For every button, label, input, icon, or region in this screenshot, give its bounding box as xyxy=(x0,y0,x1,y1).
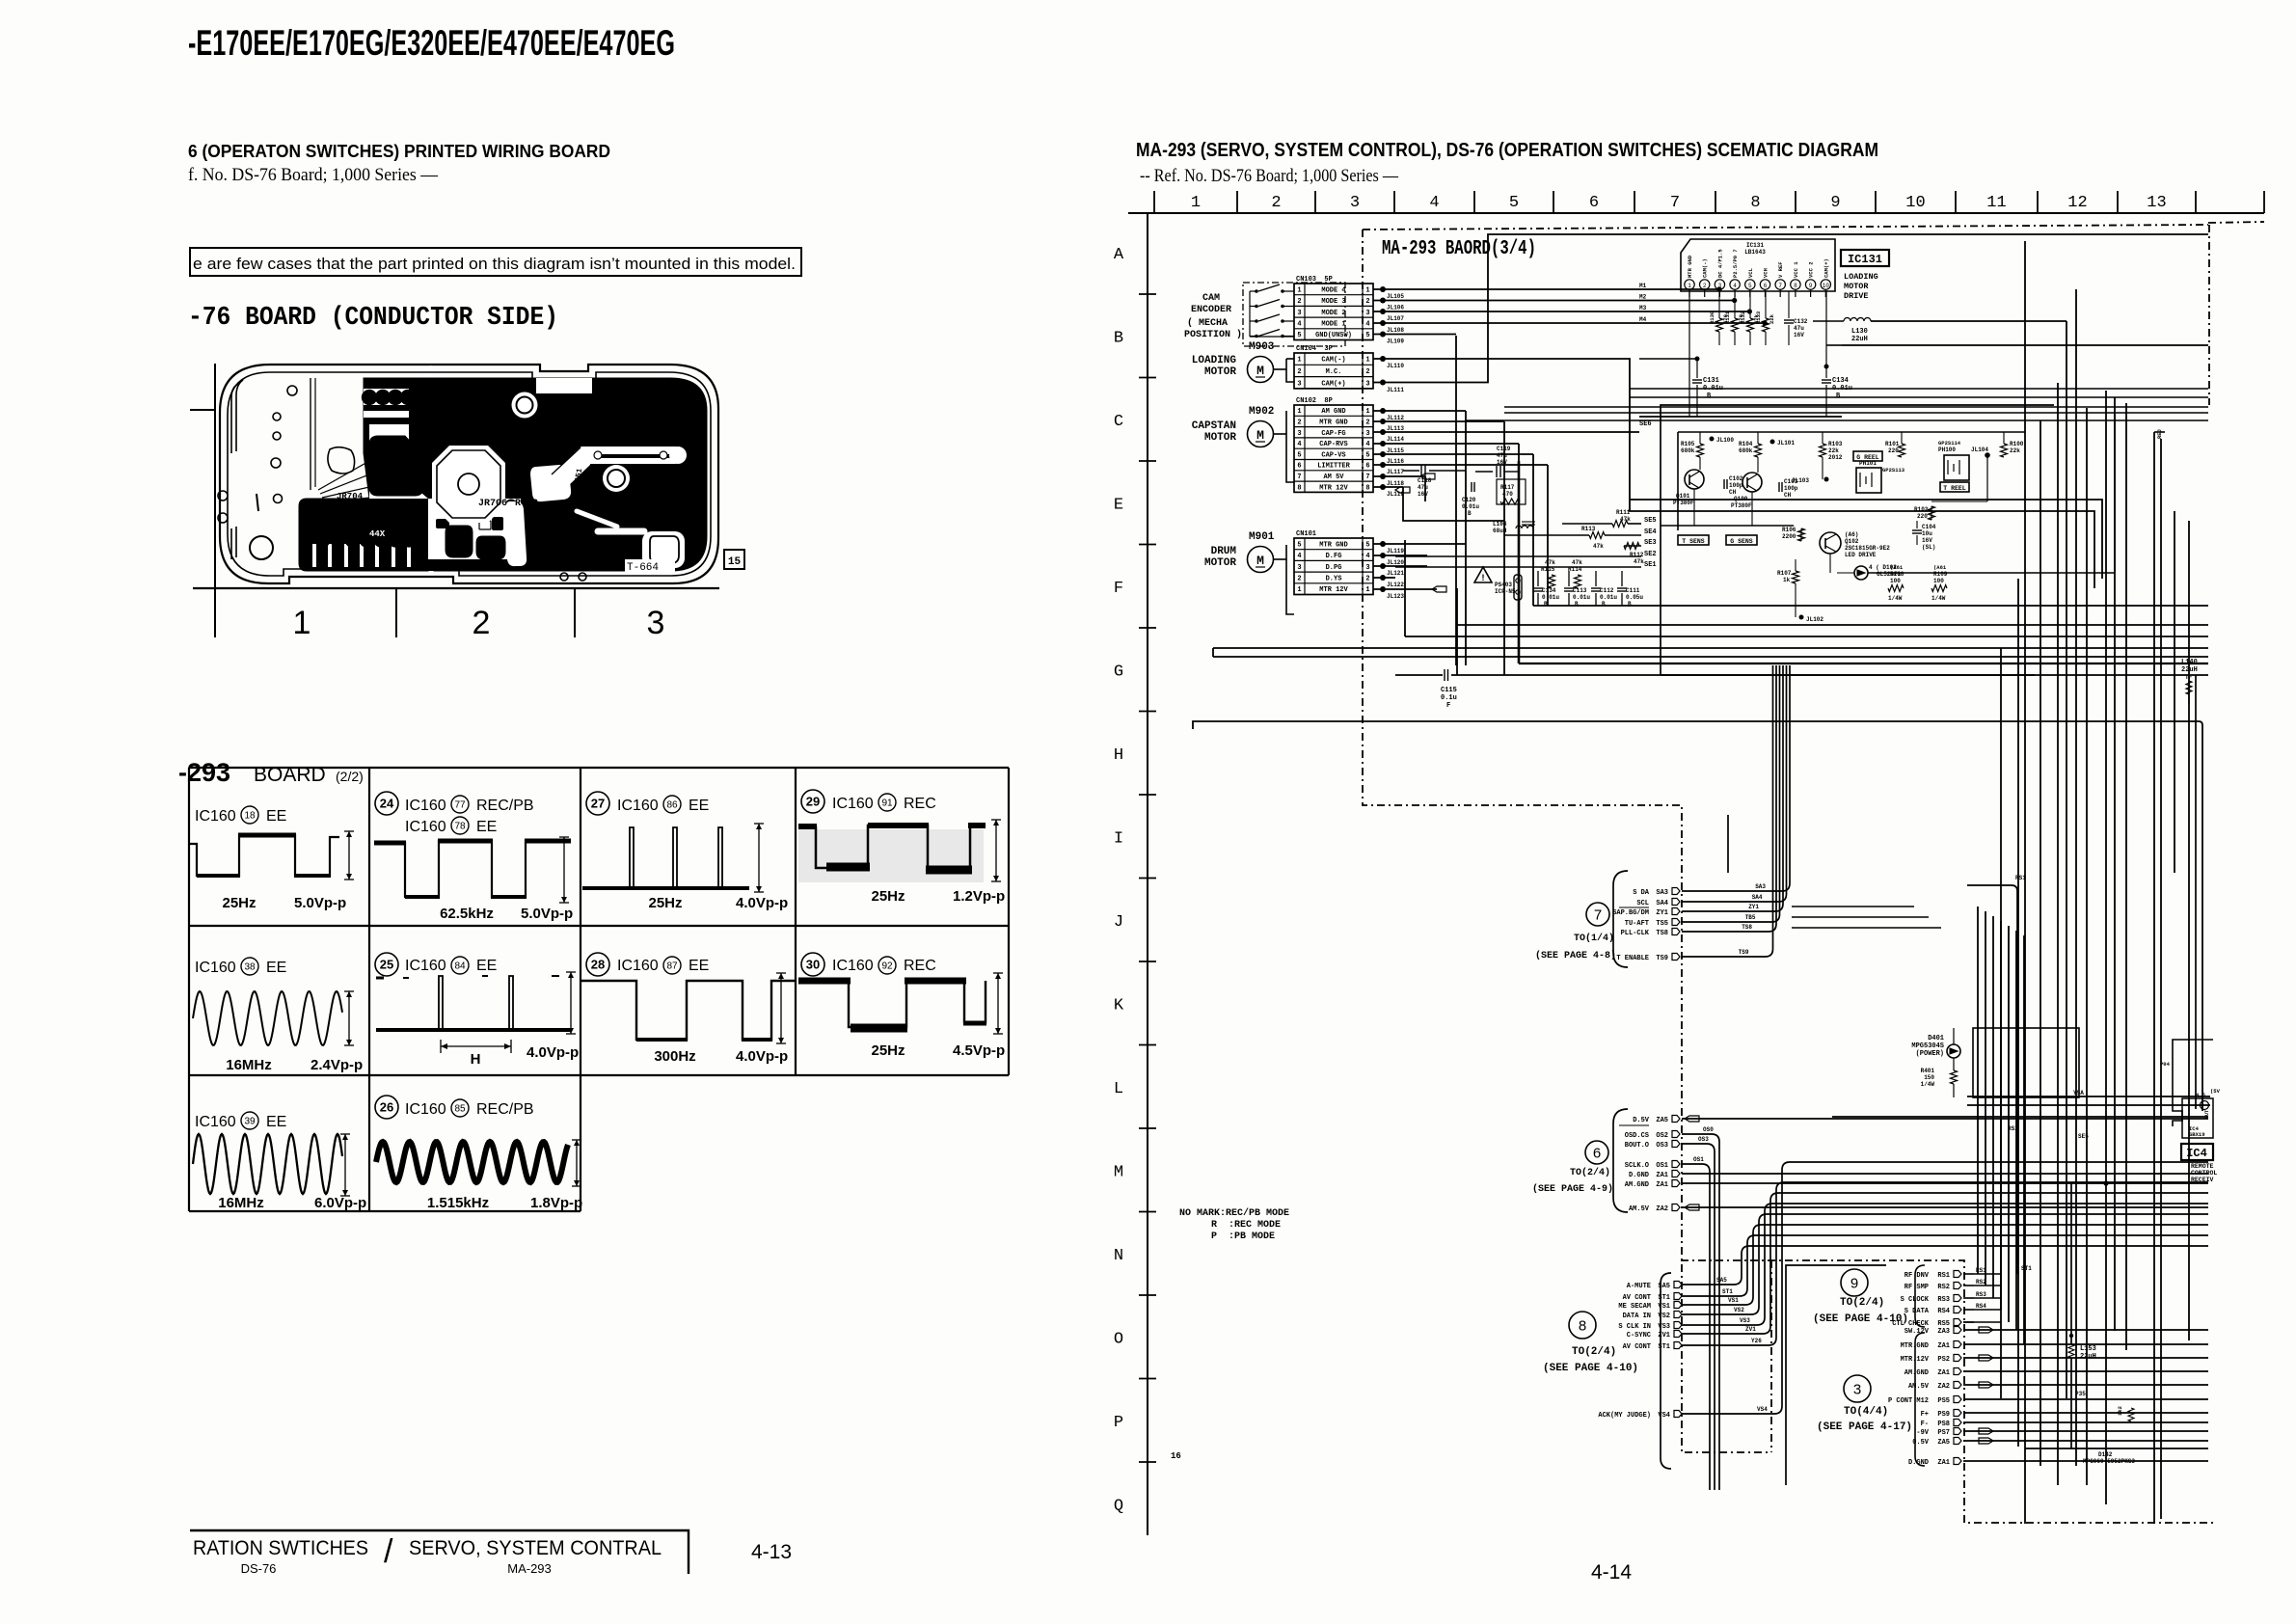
svg-text:TF: TF xyxy=(2185,674,2193,681)
svg-text:68uH: 68uH xyxy=(1493,528,1507,534)
svg-text:2: 2 xyxy=(1297,368,1301,376)
resistor vertical near L153 xyxy=(2128,1408,2134,1421)
svg-text:11: 11 xyxy=(1986,194,2006,212)
svg-text:VS3: VS3 xyxy=(1658,1323,1670,1331)
svg-text:16V: 16V xyxy=(1922,537,1932,544)
svg-text:SCL: SCL xyxy=(1636,900,1649,907)
svg-text:CAPSTAN: CAPSTAN xyxy=(1192,420,1236,432)
svg-text:IC160: IC160 xyxy=(405,798,446,814)
svg-text:ZA1: ZA1 xyxy=(1656,1172,1668,1179)
wire xyxy=(1373,288,1719,290)
PCB white dip top notch xyxy=(536,378,592,393)
svg-text:D.YS: D.YS xyxy=(1326,575,1342,582)
top ruler xyxy=(1128,212,2264,214)
svg-text:R112: R112 xyxy=(1630,552,1644,558)
board boundary dash-dot xyxy=(1363,225,2208,230)
svg-text:EE: EE xyxy=(266,808,286,825)
svg-text:C113: C113 xyxy=(1573,587,1587,594)
resistor R102 xyxy=(1929,506,1935,520)
wire thick vertical 1575 xyxy=(1518,461,1521,663)
svg-text:D.GND: D.GND xyxy=(1629,1172,1649,1179)
wire xyxy=(1373,588,1437,590)
svg-text:ST1: ST1 xyxy=(1658,1343,1670,1351)
sensor block outline xyxy=(1661,405,2054,675)
svg-text:P :PB MODE: P :PB MODE xyxy=(1211,1232,1275,1242)
svg-text:TO(2/4): TO(2/4) xyxy=(1572,1346,1616,1358)
svg-text:0.1u: 0.1u xyxy=(1441,694,1457,702)
IC131 label box xyxy=(1841,250,1889,266)
PCB white band center xyxy=(428,499,521,564)
svg-text:M903: M903 xyxy=(1249,341,1275,353)
svg-text:R113: R113 xyxy=(1581,526,1596,532)
wires LED drive xyxy=(1795,559,1796,571)
inductor L130 xyxy=(1813,320,1844,322)
svg-text:LOADING: LOADING xyxy=(1844,272,1878,282)
svg-text:AM 5V: AM 5V xyxy=(1323,474,1344,481)
svg-text:JL119: JL119 xyxy=(1387,548,1404,555)
svg-text:DRIVE: DRIVE xyxy=(1844,291,1869,301)
svg-text:MPG060-5952PKG3: MPG060-5952PKG3 xyxy=(2083,1458,2135,1465)
svg-text:62.5kHz: 62.5kHz xyxy=(440,906,494,922)
PCB copper main mass xyxy=(409,378,707,571)
svg-text:TS5: TS5 xyxy=(1656,920,1668,928)
svg-text:2200: 2200 xyxy=(1782,533,1796,540)
svg-text:92: 92 xyxy=(881,961,893,972)
svg-text:e are few cases that the part: e are few cases that the part printed on… xyxy=(193,255,796,273)
svg-text:47k: 47k xyxy=(1545,559,1555,566)
svg-text:Q: Q xyxy=(1114,1498,1123,1516)
transistor Q100 xyxy=(1742,473,1762,492)
svg-text:L104: L104 xyxy=(1493,521,1507,528)
svg-text:44X: 44X xyxy=(369,529,386,539)
svg-text:PS9: PS9 xyxy=(1937,1411,1950,1419)
svg-text:-76 BOARD (CONDUCTOR SIDE): -76 BOARD (CONDUCTOR SIDE) xyxy=(188,304,558,333)
svg-text:ST1: ST1 xyxy=(2021,1265,2032,1272)
wire vertical bus xyxy=(2000,648,2002,1398)
svg-text:OS3: OS3 xyxy=(1656,1142,1668,1150)
svg-text:0.5V: 0.5V xyxy=(1912,1439,1930,1447)
inductor L153 xyxy=(2069,1334,2073,1338)
svg-text:(2/2): (2/2) xyxy=(336,769,364,784)
label T SENS xyxy=(1678,535,1709,545)
svg-text:ZA5: ZA5 xyxy=(1937,1439,1950,1447)
svg-text:150: 150 xyxy=(1924,1074,1934,1081)
wire long y748 xyxy=(1193,721,2202,1111)
sheet number box 15 xyxy=(724,550,744,569)
svg-text:0.01u: 0.01u xyxy=(1600,594,1617,601)
svg-text:R401: R401 xyxy=(1921,1068,1935,1074)
svg-text:JL114: JL114 xyxy=(1387,436,1404,443)
svg-text:5: 5 xyxy=(1297,541,1301,549)
svg-text:R131: R131 xyxy=(1724,311,1731,324)
svg-text:PS2: PS2 xyxy=(1937,1356,1950,1364)
svg-text:R107: R107 xyxy=(1777,570,1792,577)
svg-text:P CONT M12: P CONT M12 xyxy=(1888,1397,1929,1405)
svg-text:4: 4 xyxy=(1365,553,1369,560)
svg-text:6.0Vp-p: 6.0Vp-p xyxy=(314,1195,366,1211)
svg-text:1k2: 1k2 xyxy=(2117,1406,2123,1416)
svg-text:C111: C111 xyxy=(1626,587,1640,594)
PCB slot traces left xyxy=(231,384,238,453)
svg-text:4: 4 xyxy=(1365,441,1369,448)
svg-text:4.5: 4.5 xyxy=(2196,1092,2206,1098)
svg-text:JL101: JL101 xyxy=(1777,440,1795,447)
svg-text:TO(2/4): TO(2/4) xyxy=(1840,1297,1884,1309)
svg-text:PH100: PH100 xyxy=(1938,447,1956,453)
svg-text:1: 1 xyxy=(293,605,311,641)
svg-text:(5V: (5V xyxy=(2210,1088,2221,1095)
label G REEL xyxy=(1853,451,1882,461)
svg-text:3: 3 xyxy=(1350,194,1360,212)
resistor R112 xyxy=(1624,543,1639,550)
svg-text:IC131: IC131 xyxy=(1746,242,1764,249)
PCB rounded hole bottom right xyxy=(642,531,685,568)
capacitor C103 xyxy=(1778,482,1780,492)
svg-text:POSITION ): POSITION ) xyxy=(1184,329,1242,340)
svg-text:TU-AFT: TU-AFT xyxy=(1625,920,1649,928)
svg-text:OS1: OS1 xyxy=(1656,1162,1668,1170)
svg-text:EE: EE xyxy=(476,819,497,835)
svg-text:D.FG: D.FG xyxy=(1326,553,1342,560)
svg-text:6: 6 xyxy=(1297,463,1301,471)
CAM encoder switch box xyxy=(1243,283,1345,346)
svg-text:1: 1 xyxy=(1297,286,1301,294)
wire bus upper xyxy=(1630,388,2208,390)
svg-text:470: 470 xyxy=(1502,491,1513,498)
wire xyxy=(1373,311,1749,312)
svg-text:DATA IN: DATA IN xyxy=(1623,1313,1651,1320)
svg-text:GP2S113: GP2S113 xyxy=(1882,467,1905,474)
wire CAM+ xyxy=(1373,234,2208,383)
svg-text:DRUM: DRUM xyxy=(1211,546,1237,557)
svg-text:R115: R115 xyxy=(1541,566,1555,573)
svg-text:22uH: 22uH xyxy=(1851,336,1868,343)
svg-text:L153: L153 xyxy=(2080,1345,2096,1353)
svg-text:DC 4/P1.5: DC 4/P1.5 xyxy=(1716,249,1723,278)
svg-text:4: 4 xyxy=(1297,320,1301,328)
wire CAM- xyxy=(1373,359,2094,588)
svg-text:PLL-CLK: PLL-CLK xyxy=(1621,930,1650,937)
svg-text:5: 5 xyxy=(1365,451,1369,459)
svg-text:LB1643: LB1643 xyxy=(1744,249,1766,256)
svg-text:6: 6 xyxy=(1593,1145,1601,1161)
svg-text:5: 5 xyxy=(1748,283,1752,289)
capacitor C120 xyxy=(1471,482,1472,492)
svg-text:MOTOR: MOTOR xyxy=(1844,282,1869,291)
svg-text:2: 2 xyxy=(1297,575,1301,582)
svg-text:(A6): (A6) xyxy=(1845,531,1858,538)
svg-text:47u: 47u xyxy=(1418,484,1428,491)
svg-text:ZA1: ZA1 xyxy=(1937,1342,1950,1350)
wire group7 feeders xyxy=(1727,815,1729,873)
svg-text:16V: 16V xyxy=(1794,332,1804,338)
wire cap rail xyxy=(1533,605,2208,607)
svg-text:(SEE PAGE 4-8): (SEE PAGE 4-8) xyxy=(1535,950,1616,961)
svg-text:2: 2 xyxy=(1297,298,1301,306)
svg-text:L: L xyxy=(1114,1080,1123,1098)
svg-text:IC160: IC160 xyxy=(832,796,874,812)
wires sensor block xyxy=(1678,431,2025,433)
svg-text:MTR GND: MTR GND xyxy=(1319,541,1347,549)
wire horizontals into groups xyxy=(1792,906,1914,907)
opto PH100 xyxy=(1944,455,1969,480)
svg-text:15: 15 xyxy=(728,556,742,568)
capacitor C134b xyxy=(1825,366,1827,378)
svg-text:SE5: SE5 xyxy=(2078,1133,2089,1140)
svg-text:PT380F: PT380F xyxy=(1673,500,1694,506)
svg-text:R452: R452 xyxy=(515,499,538,509)
svg-text:Y5A: Y5A xyxy=(2073,1090,2084,1096)
label G SENS xyxy=(1726,535,1757,545)
svg-text:D.GND: D.GND xyxy=(1908,1459,1929,1467)
resistor R109 xyxy=(1931,585,1947,592)
svg-text:JL112: JL112 xyxy=(1387,415,1404,421)
svg-text:SE4: SE4 xyxy=(1644,528,1657,536)
svg-text:PS7: PS7 xyxy=(1937,1429,1950,1437)
svg-text:MOTOR: MOTOR xyxy=(1204,432,1236,444)
svg-text:REC: REC xyxy=(904,796,936,812)
svg-text:0.01u: 0.01u xyxy=(1542,594,1559,601)
svg-text:JL122: JL122 xyxy=(1387,582,1404,588)
wire xyxy=(1373,410,1466,412)
svg-text:MTR GND: MTR GND xyxy=(1687,255,1693,278)
svg-text:VCC 2: VCC 2 xyxy=(1808,261,1815,278)
svg-text:G SENS: G SENS xyxy=(1730,538,1753,545)
svg-text:ME SECAM: ME SECAM xyxy=(1618,1303,1651,1311)
svg-text:28: 28 xyxy=(591,958,605,972)
wire sensor bottoms xyxy=(1986,455,1988,501)
svg-text:10: 10 xyxy=(1905,194,1925,212)
svg-text:CTL CHECK: CTL CHECK xyxy=(1892,1320,1930,1328)
svg-text:JL107: JL107 xyxy=(1387,315,1404,322)
svg-text:2: 2 xyxy=(1297,419,1301,426)
svg-text:47k: 47k xyxy=(1620,516,1631,523)
svg-text:NO MARK:REC/PB MODE: NO MARK:REC/PB MODE xyxy=(1179,1207,1289,1219)
svg-text:JL100: JL100 xyxy=(1716,437,1734,444)
capacitor C132 xyxy=(1788,291,1790,318)
svg-text:RS3: RS3 xyxy=(1976,1291,1986,1298)
svg-text:(SEE PAGE 4-9): (SEE PAGE 4-9) xyxy=(1532,1183,1613,1195)
wire diagonal bus loop xyxy=(1455,336,1457,665)
svg-text:IC4: IC4 xyxy=(2186,1147,2207,1160)
svg-text:RS2: RS2 xyxy=(1937,1284,1950,1291)
svg-text:MTR.GND: MTR.GND xyxy=(1901,1342,1929,1350)
svg-text:ST1: ST1 xyxy=(1722,1288,1733,1295)
svg-text:4.0Vp-p: 4.0Vp-p xyxy=(527,1044,579,1061)
svg-text:5.0Vp-p: 5.0Vp-p xyxy=(294,895,346,911)
svg-text:V REF: V REF xyxy=(1777,261,1784,278)
resistor R115 xyxy=(1549,575,1555,588)
IC131 chip xyxy=(1681,239,1835,291)
svg-text:IC131: IC131 xyxy=(1848,253,1882,266)
svg-text:3: 3 xyxy=(1853,1381,1861,1397)
connector group 7 xyxy=(1613,871,1628,967)
svg-text:MTR.12V: MTR.12V xyxy=(1901,1356,1930,1364)
svg-text:C102: C102 xyxy=(1729,475,1743,482)
svg-text:OUT: OUT xyxy=(2204,1110,2210,1119)
svg-text:R101: R101 xyxy=(1885,441,1900,447)
svg-text:M: M xyxy=(1256,428,1264,443)
PCB white channel vertical xyxy=(504,501,527,566)
resistors R130 R131 R132 R133 xyxy=(1718,291,1720,318)
svg-text:39: 39 xyxy=(244,1117,256,1127)
svg-text:ZA1: ZA1 xyxy=(1656,1181,1668,1189)
svg-text:2: 2 xyxy=(1271,194,1281,212)
svg-text:M4: M4 xyxy=(1639,316,1647,323)
PCB board outline xyxy=(220,365,718,583)
svg-text:6: 6 xyxy=(1589,194,1599,212)
svg-text:VCC 1: VCC 1 xyxy=(1793,261,1799,278)
svg-text:F-: F- xyxy=(1921,1421,1929,1428)
PCB pad row top-left xyxy=(363,391,377,405)
svg-text:CN104 3P: CN104 3P xyxy=(1296,345,1333,353)
svg-text:RS1: RS1 xyxy=(2015,875,2026,881)
svg-text:CONTROL: CONTROL xyxy=(2191,1170,2217,1177)
svg-text:D.5V: D.5V xyxy=(1633,1117,1650,1124)
svg-text:B: B xyxy=(1602,601,1606,608)
PCB axis line xyxy=(214,364,216,637)
wire xyxy=(1373,475,1425,477)
svg-text:B: B xyxy=(1628,601,1632,608)
svg-text:TS9: TS9 xyxy=(1739,949,1749,956)
note box xyxy=(190,248,801,276)
svg-text:CN101: CN101 xyxy=(1296,530,1316,538)
wire xyxy=(1373,420,1504,422)
capacitor C102 xyxy=(1723,479,1725,489)
svg-text:C112: C112 xyxy=(1600,587,1614,594)
svg-text:VS1: VS1 xyxy=(1728,1297,1739,1304)
svg-text:BOUT.O: BOUT.O xyxy=(1625,1142,1649,1150)
svg-text:3: 3 xyxy=(428,365,433,374)
svg-text:ICP-N5: ICP-N5 xyxy=(1495,588,1516,595)
svg-text:9: 9 xyxy=(1850,1275,1858,1291)
svg-text:S DA: S DA xyxy=(1633,889,1650,897)
svg-text:MOTOR: MOTOR xyxy=(1204,557,1236,569)
svg-text:ZA5: ZA5 xyxy=(1656,1117,1668,1124)
svg-text:R133: R133 xyxy=(1755,311,1762,324)
svg-text:TS8: TS8 xyxy=(1742,924,1752,931)
svg-text:IC160: IC160 xyxy=(195,808,236,825)
svg-text:Q100: Q100 xyxy=(1734,496,1748,502)
svg-text:L140: L140 xyxy=(2181,659,2198,666)
svg-text:7: 7 xyxy=(1365,474,1369,481)
svg-text:E: E xyxy=(1114,497,1123,515)
svg-text:AV CONT: AV CONT xyxy=(1623,1343,1651,1351)
waveform cell 30 IC160 92 REC xyxy=(801,953,824,976)
svg-text:22uH: 22uH xyxy=(2181,666,2198,674)
IC4 remote receiver xyxy=(2173,1040,2213,1126)
svg-text:VS4: VS4 xyxy=(1757,1406,1768,1413)
svg-text:220: 220 xyxy=(1917,513,1928,520)
svg-text:EE: EE xyxy=(689,958,709,974)
wire xyxy=(1373,486,1403,488)
svg-text:7: 7 xyxy=(1594,907,1602,923)
svg-text:22k: 22k xyxy=(1828,447,1839,454)
svg-text:SE3: SE3 xyxy=(1644,539,1657,547)
wire IC131 bottom rail xyxy=(1639,416,1842,418)
svg-text:30: 30 xyxy=(806,958,820,972)
PCB ring hole top xyxy=(512,392,538,419)
svg-text:VS3: VS3 xyxy=(1740,1317,1750,1324)
svg-text:CAM(+): CAM(+) xyxy=(1823,258,1829,278)
wire long horizontals mid xyxy=(1213,647,2208,649)
svg-text:(SEE PAGE 4-17): (SEE PAGE 4-17) xyxy=(1817,1421,1912,1433)
connector group 3 xyxy=(1844,1375,1871,1402)
svg-text:4.5Vp-p: 4.5Vp-p xyxy=(953,1042,1005,1059)
svg-text:SE1: SE1 xyxy=(1644,561,1657,569)
svg-text:16V: 16V xyxy=(1497,459,1507,466)
svg-text:16MHz: 16MHz xyxy=(226,1057,272,1073)
PCB octagon cutout xyxy=(432,446,505,523)
svg-text:ACK(MY JUDGE): ACK(MY JUDGE) xyxy=(1598,1412,1651,1420)
svg-text:R109: R109 xyxy=(1933,571,1948,578)
svg-text:REC/PB: REC/PB xyxy=(476,798,534,814)
svg-text:ZA1: ZA1 xyxy=(1937,1459,1950,1467)
svg-text:IC160: IC160 xyxy=(195,1114,236,1130)
svg-text:ZA1: ZA1 xyxy=(1937,1369,1950,1377)
svg-text:T-664: T-664 xyxy=(627,562,659,574)
opto PH101 xyxy=(1856,468,1881,493)
PCB center components xyxy=(449,503,469,517)
svg-text:(A61: (A61 xyxy=(1933,564,1947,571)
svg-text:MTR 12V: MTR 12V xyxy=(1319,484,1348,492)
svg-text:TO(1/4): TO(1/4) xyxy=(1574,933,1614,944)
svg-text:RECEIV: RECEIV xyxy=(2191,1177,2214,1183)
wire mid horizontals xyxy=(1967,1096,2210,1097)
svg-text:100: 100 xyxy=(1933,578,1944,584)
svg-text:100: 100 xyxy=(1890,578,1901,584)
svg-text:-- Ref. No. DS-76 Board; 1,000: -- Ref. No. DS-76 Board; 1,000 Series — xyxy=(1140,166,1399,186)
PCB pad circles xyxy=(316,533,330,547)
svg-text:CN102 8P: CN102 8P xyxy=(1296,397,1333,405)
connector group 8 xyxy=(1661,1273,1671,1469)
svg-text:P: P xyxy=(1114,1414,1123,1432)
svg-text:1k: 1k xyxy=(1783,577,1791,583)
svg-text:MA-293 BAORD(3/4): MA-293 BAORD(3/4) xyxy=(1382,238,1536,260)
svg-text:12: 12 xyxy=(2067,194,2087,212)
svg-text:22k: 22k xyxy=(2010,447,2020,454)
wire y518 xyxy=(1636,500,2102,579)
svg-text:CAM(-): CAM(-) xyxy=(1702,258,1709,278)
svg-text:K: K xyxy=(1114,997,1124,1015)
svg-text:77: 77 xyxy=(454,800,466,811)
svg-text:4: 4 xyxy=(1429,194,1439,212)
svg-text:5: 5 xyxy=(1297,332,1301,339)
svg-text:3: 3 xyxy=(1365,380,1369,388)
svg-text:7: 7 xyxy=(1778,283,1782,289)
svg-text:47k: 47k xyxy=(1634,558,1644,565)
svg-text:A-MUTE: A-MUTE xyxy=(1627,1283,1651,1290)
svg-text:8: 8 xyxy=(1750,194,1760,212)
svg-text:SAP.BG/DM: SAP.BG/DM xyxy=(1612,909,1649,917)
svg-text:C134: C134 xyxy=(1832,377,1849,385)
connector group 6 xyxy=(1613,1109,1628,1212)
resistor R101 xyxy=(1899,444,1905,457)
svg-text:PH101: PH101 xyxy=(1859,460,1877,467)
svg-text:7: 7 xyxy=(1670,194,1680,212)
svg-text:OS0: OS0 xyxy=(1703,1126,1714,1133)
svg-text:1.8Vp-p: 1.8Vp-p xyxy=(530,1195,582,1211)
svg-text:R100: R100 xyxy=(2010,441,2024,447)
svg-text:RS1: RS1 xyxy=(1937,1272,1950,1280)
svg-text:MODE 2: MODE 2 xyxy=(1321,310,1345,317)
svg-text:Y26: Y26 xyxy=(1751,1338,1762,1344)
svg-text:J: J xyxy=(1114,913,1123,932)
svg-text:Q102: Q102 xyxy=(1845,538,1859,545)
svg-text:CH: CH xyxy=(1784,492,1792,499)
resistor R114 xyxy=(1575,575,1581,588)
svg-text:LED DRIVE: LED DRIVE xyxy=(1845,552,1877,558)
